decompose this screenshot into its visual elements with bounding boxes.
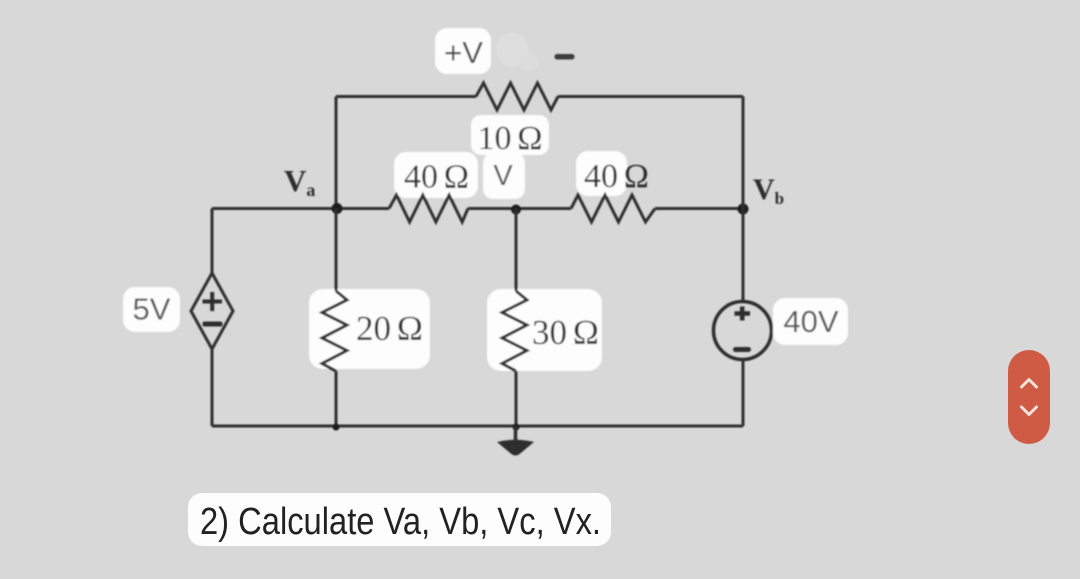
svg-text:40 Ω: 40 Ω [404, 159, 469, 196]
label box 40 ohm right [576, 151, 649, 196]
resistor R-20ohm [322, 291, 347, 371]
wire middle right segment [655, 207, 743, 210]
node junction dot Va [332, 203, 343, 214]
wire R20 to bottom [335, 371, 338, 426]
label box 10 ohm [471, 115, 549, 157]
minus polarity mark (top) [555, 54, 575, 60]
svg-text:+V: +V [444, 35, 483, 70]
svg-text:2) Calculate Va, Vb, Vc, Vx.: 2) Calculate Va, Vb, Vc, Vx. [200, 501, 601, 543]
node bottom junction dot left [333, 424, 340, 431]
scroll pill control [1008, 350, 1050, 444]
resistor R-40ohm-left [389, 195, 468, 222]
svg-text:40V: 40V [783, 304, 838, 339]
ground stem [514, 426, 518, 442]
resistor R-40ohm-right [571, 195, 655, 222]
label box V [483, 153, 525, 199]
wire Va branch to R20 [335, 209, 338, 292]
wire left vertical lower [211, 349, 214, 426]
ground symbol [497, 440, 534, 456]
wire top-left vertical (node Va branch top) [335, 97, 338, 209]
wire right vertical lower [742, 360, 745, 427]
svg-text:30 Ω: 30 Ω [532, 313, 599, 352]
wire R30 to bottom [515, 371, 518, 426]
label box 30 ohm [487, 289, 602, 371]
node junction dot Vb [738, 204, 749, 215]
svg-text:V: V [493, 160, 513, 192]
label box +V [435, 28, 491, 74]
question text box [188, 493, 611, 546]
svg-text:20 Ω: 20 Ω [356, 309, 423, 348]
node junction dot center [511, 205, 521, 215]
wire right vertical upper [742, 97, 745, 302]
node bottom junction dot center [513, 424, 520, 431]
label box 20 ohm [309, 289, 430, 369]
wire center branch to R30 [515, 209, 518, 292]
svg-text:40 Ω: 40 Ω [584, 158, 649, 195]
label box 40V [773, 298, 848, 345]
label box 40 ohm left [394, 152, 478, 198]
svg-text:5V: 5V [133, 292, 171, 327]
voltage source 40V (circle) [714, 302, 772, 360]
dependent source 5V (diamond) [191, 273, 233, 349]
wire left vertical upper [211, 209, 214, 274]
resistor R-30ohm [502, 291, 527, 371]
resistor R-10ohm [476, 83, 558, 110]
label box 5V [123, 287, 180, 332]
wire top right segment [558, 95, 743, 98]
wire bottom rail [212, 425, 743, 428]
ghost artifact patch [496, 33, 539, 71]
wire middle left segment [212, 207, 389, 210]
svg-text:10 Ω: 10 Ω [478, 120, 543, 157]
wire middle center segment [468, 207, 571, 210]
wire top left segment [336, 95, 476, 98]
